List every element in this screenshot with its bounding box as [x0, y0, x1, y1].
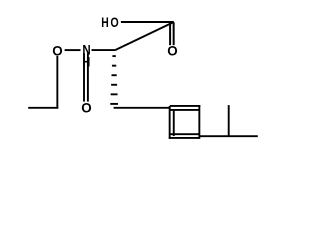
bond N to stereocenter [92, 49, 116, 51]
bond CH2 to CH3 (ethyl, horizontal) [28, 107, 58, 109]
bond ring to substituent carbon [199, 135, 258, 137]
svg-text:H: H [82, 54, 90, 69]
stereo hashed wedge bond (stereocenter down to benzylic CH2) [110, 56, 118, 104]
svg-text:O: O [167, 43, 178, 58]
bond C=O double (carboxyl) [169, 22, 171, 45]
bond N=O double vertical (drawn under H label) [83, 53, 85, 101]
svg-text:H: H [101, 15, 109, 31]
bond CH2 to ring [114, 107, 171, 109]
bond O to N (ethoxy) [65, 49, 81, 51]
benzene ring inner double-bond lines [170, 110, 200, 136]
bond HO to carboxyl carbon [121, 21, 174, 23]
benzene ring (degenerate square) outer edges [169, 105, 201, 139]
svg-text:O: O [81, 100, 92, 115]
bond O to CH2 (ethyl, vertical) [56, 56, 58, 109]
bond substituent methyl (vertical) [228, 105, 230, 137]
svg-text:O: O [110, 15, 119, 31]
bond carboxyl C to stereocenter (diagonal) [115, 22, 174, 50]
